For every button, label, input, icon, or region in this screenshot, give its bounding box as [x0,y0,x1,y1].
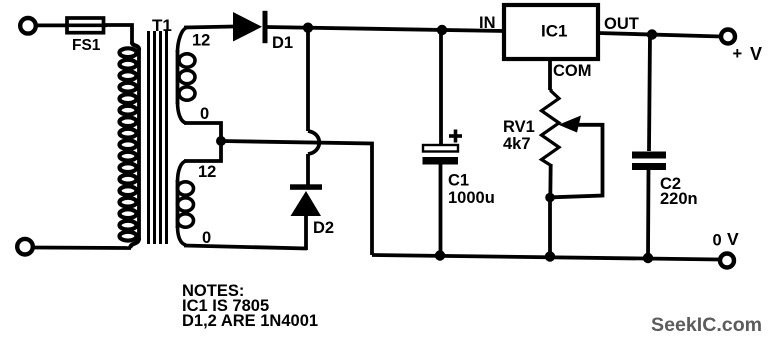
wire center tap to 0V rail [221,141,372,255]
wire top rail D1 to IC1 [266,27,505,31]
wire input bottom to primary [33,246,131,250]
terminal +V [721,30,735,44]
node RV1 bottom rail junction [545,251,555,261]
svg-text:+: + [733,45,743,63]
svg-text:V: V [727,229,739,249]
transformer T1 primary winding [120,42,140,248]
svg-text:IN: IN [479,14,496,32]
wire center tap bottom [184,139,221,161]
svg-text:COM: COM [553,62,592,80]
node RV1 bottom junction [545,193,555,203]
svg-text:0: 0 [713,232,722,250]
node center tap junction [216,136,226,146]
wire bottom 0V rail [372,255,720,260]
transformer T1 secondary winding bottom [178,161,194,245]
diode D1 [233,11,268,43]
wire secondary top to D1 [184,27,234,28]
svg-text:SeekIC.com: SeekIC.com [651,314,762,336]
wire OUT rail [598,33,721,37]
svg-text:12: 12 [192,32,210,50]
capacitor C2 [632,35,666,259]
svg-text:IC1: IC1 [541,22,567,41]
terminal input bottom [17,239,33,255]
wire D1 branch down with hop [308,28,319,186]
svg-text:4k7: 4k7 [503,135,531,153]
svg-text:OUT: OUT [604,15,639,33]
plus sign of C1 [449,130,462,143]
fuse FS1 [64,18,107,33]
node OUT junction [647,29,657,39]
terminal input top [20,18,36,34]
svg-text:T1: T1 [152,16,172,35]
wiper arrow of RV1 [552,116,603,198]
svg-text:D1,2 ARE 1N4001: D1,2 ARE 1N4001 [182,312,318,330]
wire RV1 to 0V rail [548,198,552,257]
svg-text:0: 0 [200,105,209,123]
capacitor C1 [423,30,459,255]
wire COM pin down [548,59,552,90]
wire D2 anode to bottom winding [184,246,307,249]
svg-text:C1: C1 [448,172,469,190]
svg-text:12: 12 [198,163,216,181]
node D1/D2 junction [303,23,313,33]
wire center tap top [184,123,221,143]
regulator IC1 [504,5,598,59]
terminal 0V [720,254,734,268]
svg-text:V: V [750,44,762,64]
potentiometer RV1 [542,89,560,198]
svg-text:D1: D1 [272,34,293,52]
notes text [182,282,318,330]
transformer T1 secondary winding top [178,28,196,123]
node C1 bottom junction [435,250,445,260]
svg-text:RV1: RV1 [503,118,535,136]
svg-text:1000u: 1000u [448,189,495,207]
wire [104,25,132,44]
svg-text:D2: D2 [313,219,334,237]
svg-text:FS1: FS1 [72,37,101,54]
transformer T1 core [149,31,167,244]
diode D2 [290,184,322,250]
svg-text:220n: 220n [660,190,698,208]
wire [36,23,68,27]
node C2 bottom junction [643,253,653,263]
node C1 top junction [437,25,447,35]
